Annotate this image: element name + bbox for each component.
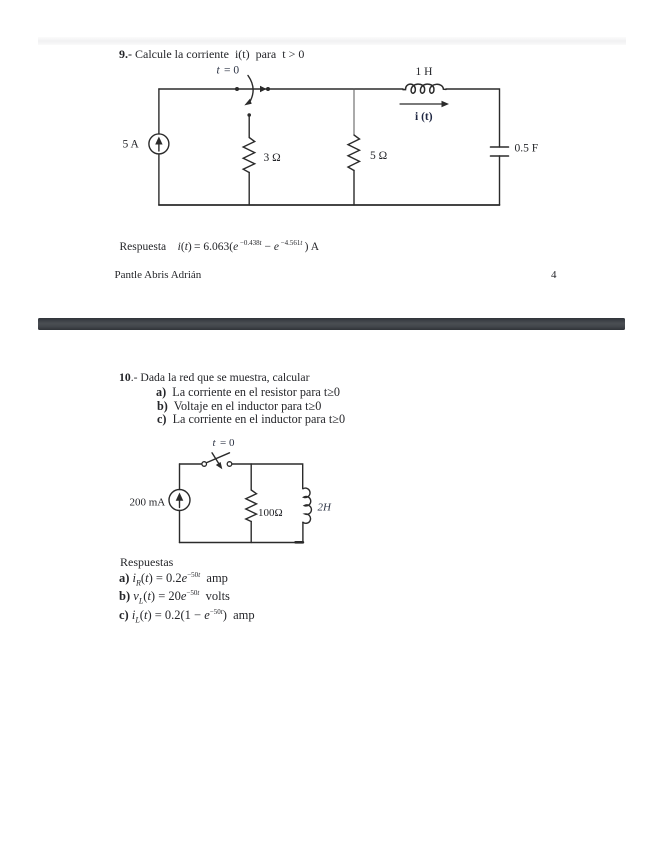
svg-text:= 0: = 0 — [220, 437, 235, 449]
current source I2 200mA — [169, 490, 190, 511]
value label 200 mA — [130, 497, 166, 509]
wire middle branch top (5 ohm) — [353, 89, 355, 135]
inductor L1 1H coil — [403, 84, 446, 93]
wire stub to resistor R1 — [248, 117, 250, 138]
value label 2H — [318, 502, 333, 514]
answer a — [119, 571, 228, 586]
wire resistor R1 to bottom — [248, 173, 250, 206]
wire inductor to top-right corner — [446, 89, 500, 147]
wire top-left horizontal to switch — [180, 463, 202, 465]
junction thick corner bottom-right — [296, 541, 303, 544]
value label 5 ohm — [370, 150, 387, 162]
inductor L2 2H coil — [303, 488, 312, 523]
wire bottom horizontal — [180, 542, 303, 544]
faint top page-edge band — [38, 37, 626, 45]
svg-text:3 Ω: 3 Ω — [264, 152, 281, 164]
switch S2 blade — [207, 453, 230, 463]
capacitor C1 0.5F — [491, 147, 509, 156]
value label 3 ohm — [264, 152, 281, 164]
wire inductor to bottom-right corner — [302, 522, 304, 542]
switch S1 blade arrowhead on wire — [260, 86, 270, 92]
svg-text:t: t — [217, 65, 221, 77]
current source I1 5A — [149, 134, 169, 154]
problem 9 title — [119, 47, 304, 62]
resistor R1 3 ohm — [243, 138, 255, 173]
value label 0.5 F — [515, 143, 539, 155]
value label 1 H — [416, 66, 433, 78]
svg-text:100Ω: 100Ω — [258, 507, 283, 519]
svg-text:t: t — [213, 437, 217, 449]
item c — [157, 412, 345, 427]
item a — [156, 385, 340, 400]
wire capacitor to bottom-right corner — [499, 156, 501, 205]
wire left vertical top — [158, 89, 160, 134]
wire bottom horizontal — [159, 204, 500, 206]
answer c — [119, 608, 255, 623]
wire resistor R3 to bottom — [250, 522, 252, 543]
problem 10 title — [119, 371, 309, 384]
node junction dot left of switch — [235, 87, 239, 91]
label i(t) — [415, 111, 433, 123]
wire left vertical bottom — [179, 511, 181, 543]
wire top-left horizontal — [159, 88, 403, 90]
value label 5 A — [123, 139, 140, 151]
svg-text:1 H: 1 H — [416, 66, 433, 78]
resistor R2 5 ohm — [348, 135, 360, 171]
wire left vertical bottom — [158, 154, 160, 205]
item b — [157, 399, 321, 414]
svg-text:0.5 F: 0.5 F — [515, 143, 539, 155]
label t=0 (switch S2) — [213, 437, 235, 449]
footer author — [115, 269, 202, 281]
current arrow i(t) — [400, 101, 449, 107]
wire resistor R2 to bottom — [353, 171, 355, 206]
svg-text:2H: 2H — [318, 502, 333, 514]
svg-text:= 0: = 0 — [224, 65, 239, 77]
switch S2 right contact — [227, 462, 232, 467]
answers heading — [120, 555, 173, 570]
node dot top of 3-ohm branch — [247, 113, 251, 117]
svg-text:5 Ω: 5 Ω — [370, 150, 387, 162]
wire left vertical top — [179, 464, 181, 490]
answer line problem 9 — [120, 241, 320, 253]
switch S1 opening arc — [244, 76, 253, 106]
svg-text:200 mA: 200 mA — [130, 497, 166, 509]
wire middle branch top (100 ohm) — [250, 464, 252, 490]
footer page number — [551, 269, 557, 281]
resistor R3 100 ohm — [246, 490, 257, 522]
label t=0 (switch S1) — [217, 65, 240, 77]
dark page separator band — [38, 318, 625, 331]
switch S2 left contact — [202, 462, 207, 467]
value label 100 ohm — [258, 507, 283, 519]
svg-text:5 A: 5 A — [123, 139, 140, 151]
answer b — [119, 589, 230, 604]
svg-text:i (t): i (t) — [415, 111, 433, 123]
switch S2 motion arrow — [212, 453, 222, 470]
wire switch to top-right corner — [232, 464, 303, 489]
